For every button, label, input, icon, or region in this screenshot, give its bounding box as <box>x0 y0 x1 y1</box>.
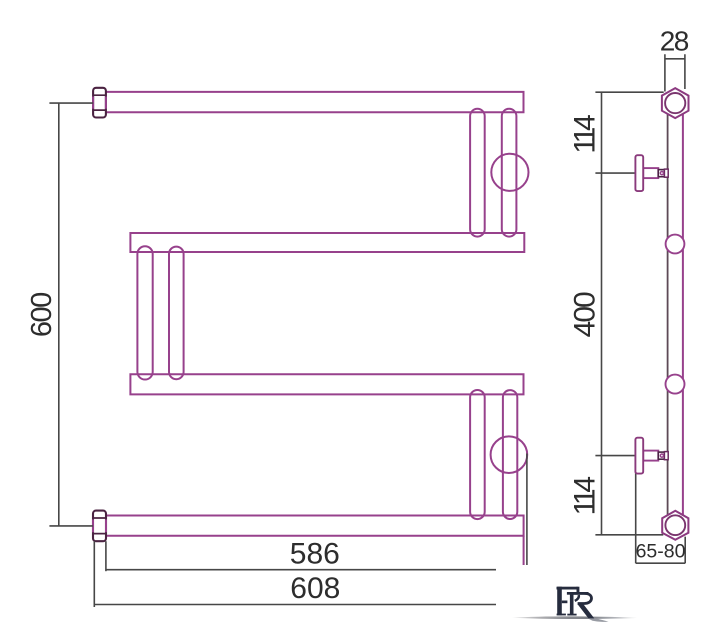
svg-text:586: 586 <box>290 538 340 571</box>
ball joint (side, lower) <box>666 375 685 394</box>
svg-text:28: 28 <box>660 26 689 57</box>
logo letter R <box>567 592 594 618</box>
tick top <box>595 91 663 93</box>
dim 586 right extension <box>526 454 528 567</box>
tick bracket top <box>595 172 635 174</box>
union nut 1 (top left) <box>93 88 106 118</box>
svg-text:608: 608 <box>290 572 340 605</box>
tube 1 (top horizontal) <box>106 92 523 112</box>
dim 600 bottom tick <box>49 525 93 527</box>
ball joint circle top <box>491 154 528 191</box>
svg-text:600: 600 <box>26 293 58 337</box>
tick bottom <box>595 534 663 536</box>
dim 586 line <box>106 569 499 571</box>
svg-text:400: 400 <box>568 292 601 337</box>
hex nut bottom (side view) <box>662 511 688 540</box>
riser E <box>470 390 485 519</box>
dim 65-80 box <box>636 473 686 563</box>
riser C <box>137 246 152 379</box>
side dimension lines <box>595 54 685 563</box>
logo swoosh shadow <box>512 616 638 619</box>
logo leg shadow <box>588 618 609 622</box>
logo white backdrop <box>496 565 712 632</box>
tube 3 <box>130 374 523 394</box>
ball joint circle bottom <box>491 436 528 473</box>
riser F <box>503 390 517 519</box>
svg-text:114: 114 <box>568 477 601 516</box>
riser D <box>169 247 184 380</box>
dim chain vertical <box>601 92 603 535</box>
dim 608 left extension <box>93 541 95 607</box>
ball joint (side, upper) <box>666 235 685 254</box>
svg-text:114: 114 <box>568 115 601 154</box>
svg-text:65-80: 65-80 <box>636 541 686 563</box>
side pipe <box>667 111 669 519</box>
riser A <box>470 109 485 237</box>
dim 600 top tick <box>49 102 93 104</box>
tick bracket bottom <box>595 455 635 457</box>
riser B <box>502 109 517 237</box>
union nut 2 (bottom left) <box>93 511 106 542</box>
tube 4 (bottom horizontal) <box>107 516 524 536</box>
wall bracket bottom <box>635 438 668 474</box>
wall bracket top <box>635 155 668 191</box>
logo letter P <box>557 587 580 616</box>
dim 28 <box>665 54 685 91</box>
tube 4 right end extension <box>523 536 525 566</box>
hex nut top (side view) <box>662 88 689 118</box>
dim 586 left extension <box>105 541 107 571</box>
dim 608 line <box>94 604 496 606</box>
dim 600 vertical line <box>58 103 60 526</box>
tube 2 <box>130 233 524 252</box>
